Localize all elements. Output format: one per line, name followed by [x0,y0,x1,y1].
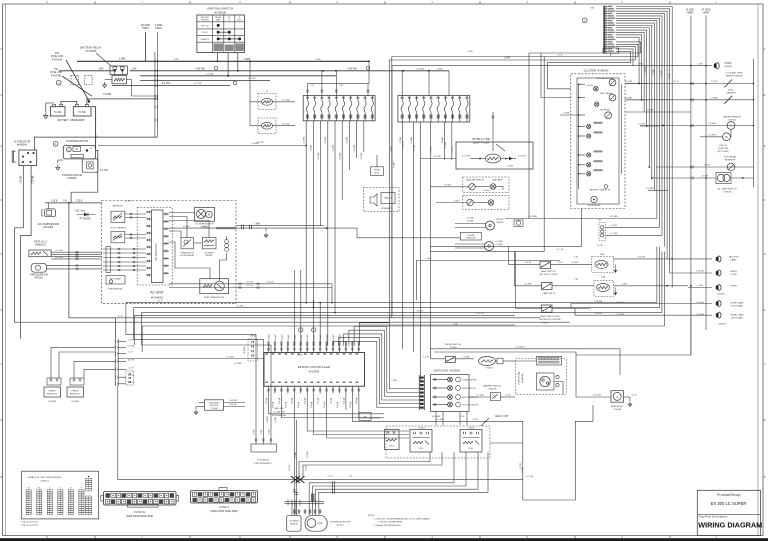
washer switch [469,384,515,400]
svg-text:0.5 RW: 0.5 RW [625,81,633,83]
governor connector strip [284,494,324,516]
svg-text:TX.38A: TX.38A [78,111,86,114]
svg-text:OIL TEMP SWITCH: OIL TEMP SWITCH [717,189,737,191]
svg-text:1 R: 1 R [310,85,314,87]
svg-text:1.2 RBL: 1.2 RBL [462,357,470,359]
svg-text:C: C [764,363,766,366]
wire right loop down [576,286,691,355]
svg-text:0.5 B: 0.5 B [460,416,465,418]
bus wire 0.5YBL [112,82,230,86]
fuse box 1 [303,96,375,121]
mode damper motor [106,276,125,291]
svg-text:0.5WR: 0.5WR [275,416,277,423]
svg-text:PRESSURE SW: PRESSURE SW [30,274,48,277]
svg-text:0.2 LGW: 0.2 LGW [462,156,470,158]
connector V.LINK-A [191,488,258,513]
svg-text:0.5LgW: 0.5LgW [333,334,335,341]
svg-text:0.5W: 0.5W [261,430,263,435]
wrap wire band [14,247,664,352]
svg-text:INTERFACING: INTERFACING [272,414,286,417]
svg-text:0.5 LG: 0.5 LG [247,285,254,287]
wire 65.7 row to horn [392,65,712,316]
wires at switchbox bottom [432,412,467,426]
side harness verticals right [686,9,711,356]
hour meter [588,196,601,207]
svg-text:0.5 GW: 0.5 GW [433,156,441,158]
svg-text:#YC0788: #YC0788 [51,74,62,77]
svg-text:1.25 GB: 1.25 GB [616,302,624,304]
radio [363,188,399,212]
svg-text:PUMP SW: PUMP SW [718,148,728,150]
wire row y251 [430,250,544,252]
svg-text:1.2 WBL: 1.2 WBL [710,97,719,99]
A/C internal wires [169,217,227,282]
svg-text:0.5 RW: 0.5 RW [467,221,474,223]
gas damp relay [194,400,245,415]
relay PW1 [410,427,432,452]
svg-text:1.25WL: 1.25WL [311,144,313,152]
svg-text:0.5 WR: 0.5 WR [646,188,654,190]
svg-text:FRONT: FRONT [496,219,504,221]
switch box [431,370,479,411]
svg-text:1.25 WB: 1.25 WB [416,68,425,70]
svg-text:A/C AMPLIFIER: A/C AMPLIFIER [155,243,158,260]
work lamp left [571,300,744,308]
svg-text:BOX: BOX [375,173,380,175]
svg-text:0.5 YB: 0.5 YB [557,249,564,251]
svg-text:FUEL GAUGE: FUEL GAUGE [600,92,613,95]
horn low [670,270,738,276]
big routing loop bottom right [523,405,593,500]
svg-text:PRESS: PRESS [71,391,79,393]
mirror heat unit [576,349,637,411]
svg-text:0.5 GW: 0.5 GW [55,257,63,259]
svg-text:EX 200 LC SUPER: EX 200 LC SUPER [711,501,747,506]
governor junction X [289,455,308,515]
svg-text:MIRROR H/T: MIRROR H/T [611,406,624,408]
bottom bus wire y480 [118,479,523,481]
svg-text:1.25 RW: 1.25 RW [616,314,624,316]
svg-text:HARN: HARN [142,27,149,30]
svg-text:# B8046: # B8046 [68,177,78,180]
serial check connector [192,336,264,366]
pressure sensor 2 [67,361,116,402]
fuse link 45A [51,52,89,101]
svg-text:#Y09048: #Y09048 [723,192,732,194]
svg-text:0.5 YBL: 0.5 YBL [194,83,202,85]
svg-text:TO DISPLAY: TO DISPLAY [257,459,270,462]
A/C control unit [137,208,172,286]
relay left box [385,430,400,450]
svg-text:1.25WL: 1.25WL [340,152,342,160]
svg-text:5 WR: 5 WR [467,51,473,53]
svg-text:0.5LgB: 0.5LgB [318,397,320,404]
svg-text:2. FITTED ON MACHINE: 2. FITTED ON MACHINE [378,521,403,524]
svg-text:MTR: MTR [318,523,323,525]
svg-text:2.5 R: 2.5 R [328,476,333,478]
governor pin labels [293,510,321,514]
diode assembly [75,211,95,221]
svg-text:1.2 WY: 1.2 WY [711,81,718,83]
svg-text:0.5WR: 0.5WR [411,136,413,143]
EPROG top pin labels [269,334,342,341]
svg-text:0.5LgW: 0.5LgW [281,334,283,341]
ignition switch table [197,7,245,53]
cluster right stub wires [625,81,707,190]
svg-text:0.5 YBL: 0.5 YBL [100,169,109,172]
svg-text:#Y04022: #Y04022 [151,296,163,300]
svg-text:#D60457: #D60457 [717,294,726,296]
svg-text:FRESH/RECIRC: FRESH/RECIRC [108,289,123,291]
svg-text:#Y0068: #Y0068 [211,408,219,410]
bus wire 2WB [77,56,370,62]
bus wire row4 [140,80,270,82]
svg-text:TERM.N: TERM.N [201,20,209,22]
A/C unit enclosure [102,201,237,304]
svg-text:2 W: 2 W [574,279,578,281]
svg-text:#YS901B: #YS901B [214,10,226,14]
svg-text:HORN: HORN [730,271,737,273]
svg-text:1 GB: 1 GB [453,324,458,326]
wire 1GW long [416,258,560,300]
svg-text:0.5 WR: 0.5 WR [227,357,234,359]
svg-text:RELAY UNIT: RELAY UNIT [495,415,509,418]
svg-text:#Y09011: #Y09011 [728,120,737,122]
svg-text:GLOW: GLOW [587,85,593,87]
svg-text:TXB 2/1.3-CKTCL: TXB 2/1.3-CKTCL [21,525,39,527]
svg-text:1 GW: 1 GW [697,285,702,287]
svg-text:0.5LgB: 0.5LgB [350,401,352,408]
svg-text:#P60499: #P60499 [724,66,733,68]
washer tank [505,216,657,226]
oil pump switch label [717,145,729,153]
svg-text:V.LINK-W: V.LINK-W [134,511,146,514]
svg-text:SPEAKER: SPEAKER [381,207,391,210]
wire to HR relay [420,156,456,159]
svg-text:0.5GW: 0.5GW [289,465,291,471]
svg-text:BLOWER: BLOWER [204,252,214,254]
highlighted 1BW wire [169,223,460,238]
harness junction strip [582,6,618,56]
svg-text:0.5WR: 0.5WR [414,144,416,151]
svg-text:GOVERNOR MOTOR: GOVERNOR MOTOR [330,522,351,524]
svg-text:D: D [1,253,3,256]
svg-text:(LOW): (LOW) [730,274,737,276]
svg-text:CONN-02: CONN-02 [40,481,50,483]
svg-text:1.50 W+R: 1.50 W+R [515,347,525,349]
svg-text:0.5 GW: 0.5 GW [282,99,289,101]
svg-text:1.25WL: 1.25WL [304,136,306,144]
svg-text:EPROG CONTROLLER: EPROG CONTROLLER [298,365,331,369]
EPROG top pin risers [294,270,321,346]
svg-text:A SIDE: A SIDE [155,24,163,27]
small dashed connector [126,371,134,385]
lamp switch feed drops [508,247,515,309]
svg-text:COOLANT TEMP: COOLANT TEMP [725,72,743,75]
svg-text:LAMP SWITCH: LAMP SWITCH [541,270,556,273]
wire relay to loop [490,443,523,469]
governor motor [305,515,351,531]
washer relay oval [479,357,517,370]
svg-text:MODULE: MODULE [210,405,219,407]
power transistor [200,279,229,299]
svg-text:0.5LgB: 0.5LgB [356,397,358,404]
blower relay [202,238,216,258]
svg-text:1 BW: 1 BW [637,63,642,65]
svg-text:IGNITION SWITCH: IGNITION SWITCH [207,7,233,11]
resistor pack [225,236,229,251]
svg-text:0.5LgW: 0.5LgW [288,334,290,341]
svg-text:WIPER: WIPER [497,222,504,224]
svg-text:#Y5604 B: #Y5604 B [488,388,497,390]
svg-text:0.5 W: 0.5 W [297,355,302,357]
svg-text:1 GW: 1 GW [621,283,626,285]
svg-text:0.5LgW: 0.5LgW [327,334,329,341]
pressure sensor 1 [44,347,116,403]
EPROG controller [264,342,365,394]
svg-text:0.5W: 0.5W [253,430,255,435]
svg-text:0.5LgB: 0.5LgB [343,397,345,404]
oil temp switch [652,173,754,194]
svg-text:TEL METER: TEL METER [600,110,611,112]
svg-text:SENSOR-2: SENSOR-2 [70,394,81,396]
fuse box 1 top feeds [306,61,369,95]
svg-text:1.2 WBL: 1.2 WBL [708,123,717,125]
svg-text:1.25 WR: 1.25 WR [21,175,23,184]
svg-text:0.5 BR: 0.5 BR [237,305,244,307]
right return wire [753,59,755,188]
svg-text:0.5LgB: 0.5LgB [337,401,339,408]
svg-text:1.25 GB: 1.25 GB [594,301,602,303]
scanner black bar bottom edge [0,538,768,541]
svg-text:WORK LAMP: WORK LAMP [730,301,744,304]
svg-text:Product/Group: Product/Group [717,493,740,497]
HR relay time delay [456,112,533,169]
svg-text:1.25WB: 1.25WB [452,146,454,154]
svg-text:WIPER SWITCH: WIPER SWITCH [445,344,462,346]
svg-text:SENDER: SENDER [726,93,736,95]
lamp switch 2 [514,283,594,296]
bus circled marks [214,66,370,84]
fan bundle descenders [639,62,672,288]
svg-text:2 B: 2 B [63,201,67,203]
svg-text:1.25WB: 1.25WB [403,141,405,149]
svg-text:WASHER SWITCH: WASHER SWITCH [483,384,501,387]
svg-text:0.5 WB: 0.5 WB [103,93,111,96]
spare lamp box [454,196,509,210]
svg-text:OIL RELAY: OIL RELAY [289,520,299,523]
ground bus 1.25B [45,201,102,204]
svg-text:0.85 WB: 0.85 WB [195,67,205,70]
svg-text:D: D [764,253,766,256]
svg-text:0.35 Y: 0.35 Y [454,200,460,202]
svg-text:0.5WR: 0.5WR [669,72,671,79]
svg-text:0.5 RB: 0.5 RB [467,218,474,220]
svg-text:1.25 LG: 1.25 LG [476,313,484,315]
svg-text:Org./Part Description: Org./Part Description [699,515,728,519]
wire compressor ground to sensor column [69,203,116,339]
svg-text:1.25 RW: 1.25 RW [594,313,602,315]
svg-text:0.85 WR: 0.85 WR [347,67,357,70]
svg-text:AIR INLET: AIR INLET [113,205,124,208]
harness connector column [146,32,158,137]
svg-text:0.5 R: 0.5 R [558,54,563,56]
bus wire 1BK row [59,67,449,71]
svg-text:TAIL RUN: TAIL RUN [729,256,739,259]
svg-text:HORN: HORN [730,285,737,287]
svg-text:HARN: HARN [687,12,694,15]
svg-text:0.5WR: 0.5WR [295,451,297,458]
A/C compressor [37,203,59,229]
svg-text:1.25 B: 1.25 B [51,201,58,203]
A/C harness connector rows [103,247,146,273]
svg-text:0.5LgB: 0.5LgB [266,397,268,404]
svg-text:1.25WB: 1.25WB [645,66,647,74]
flasher wires [516,361,563,394]
EPROG bottom wires [266,394,523,456]
svg-text:0.5LgW: 0.5LgW [269,334,271,341]
svg-text:1.25 WB: 1.25 WB [33,175,35,184]
turn flasher box [515,356,566,394]
svg-text:SENSOR #B0098: SENSOR #B0098 [726,76,743,78]
svg-text:(TBL ROD) #Y5043: (TBL ROD) #Y5043 [539,274,558,276]
svg-text:0.5LgB: 0.5LgB [298,401,300,408]
svg-text:0.5LgB: 0.5LgB [330,397,332,404]
svg-text:TURN/SIGNAL: TURN/SIGNAL [518,370,521,384]
svg-text:0.5 LR: 0.5 LR [247,282,254,284]
battery relay [80,46,137,97]
svg-text:SERIAL: SERIAL [243,345,246,353]
alternator output wires [14,166,34,339]
svg-text:1.25 RW: 1.25 RW [696,314,704,316]
relay output wires to AC unit [51,250,101,260]
svg-text:0.5LgW: 0.5LgW [275,334,277,341]
pressure switch wires [47,264,102,270]
svg-text:1.25WL: 1.25WL [354,144,356,152]
svg-text:HARN: HARN [703,12,710,15]
svg-text:0.5 G: 0.5 G [673,81,678,83]
svg-text:1.25WB: 1.25WB [431,146,433,154]
svg-text:2 WB: 2 WB [119,56,126,60]
svg-text:BATTERY #B32540B/B: BATTERY #B32540B/B [58,119,85,122]
svg-text:#Y54049: #Y54049 [71,401,80,403]
gauge spare [600,110,612,119]
svg-text:(A): (A) [204,225,207,228]
bus wire row3 [140,75,336,77]
horn relay [574,275,692,296]
svg-text:1.2 WB: 1.2 WB [563,113,570,115]
svg-text:SLIP METAL: SLIP METAL [724,156,737,159]
svg-text:0.5WR: 0.5WR [653,68,655,75]
svg-text:WIRING DIAGRAM: WIRING DIAGRAM [698,521,762,530]
svg-text:2 W: 2 W [574,257,578,259]
svg-text:0.5 YR: 0.5 YR [597,245,604,247]
svg-text:0.5 YR: 0.5 YR [128,359,135,361]
svg-text:AC UNIT: AC UNIT [150,291,164,295]
svg-text:LAMP: LAMP [731,259,737,262]
svg-text:0.45 WR: 0.45 WR [229,400,237,402]
svg-text:0.25 WG: 0.25 WG [593,395,602,397]
svg-text:CAN DHL: CAN DHL [274,407,285,410]
svg-text:0.5LgB: 0.5LgB [324,401,326,408]
svg-text:SENSOR: SENSOR [290,524,299,526]
svg-text:WATER SENSOR: WATER SENSOR [723,116,741,119]
svg-text:SWITCH BOX #Y60220H: SWITCH BOX #Y60220H [434,370,461,372]
vacuum sensor [640,116,754,130]
cluster left stub wires [529,53,571,251]
svg-text:0.5 GR: 0.5 GR [417,310,424,312]
radio fuse box [371,155,384,175]
svg-text:0.5 WY: 0.5 WY [611,225,618,227]
A/C lower output wires [169,282,333,304]
svg-text:4.5 WBL: 4.5 WBL [610,216,619,218]
wire starter to fuse bundle [98,143,307,146]
svg-text:0.5 WL: 0.5 WL [445,184,453,186]
title block [697,490,762,535]
svg-text:0.5 WR: 0.5 WR [235,363,242,365]
svg-text:1. CIRCUIT MODE BREAKER, AC &: 1. CIRCUIT MODE BREAKER, AC & DTC APPLIC… [374,517,430,520]
svg-text:#YC0434: #YC0434 [52,58,63,61]
svg-text:RETURN (OPT WK.RM): RETURN (OPT WK.RM) [539,319,561,321]
svg-text:#Y5604: #Y5604 [418,427,426,429]
svg-text:#M0301S: #M0301S [35,243,46,246]
wires ignition switch to bus [217,53,239,77]
svg-text:1.0 WR: 1.0 WR [257,142,264,144]
svg-text:0.5LgB: 0.5LgB [292,397,294,404]
slow blow switch [656,156,754,171]
svg-text:0.5 RBL: 0.5 RBL [625,98,634,100]
wiper switch [423,344,474,363]
svg-text:CAB LAMP SWITCH: CAB LAMP SWITCH [466,179,485,182]
fuel sender [625,90,754,104]
battery 2 [58,105,91,122]
svg-text:0.5 WY: 0.5 WY [702,176,709,178]
cab lamp relay 1 [572,253,674,273]
svg-text:0.5 WY: 0.5 WY [572,262,579,264]
display unit connector [251,425,277,465]
fuse link 75A [50,68,92,96]
svg-text:#Y5052: #Y5052 [483,190,491,192]
svg-text:0.5WR: 0.5WR [522,466,524,473]
svg-text:#YC0808: #YC0808 [86,50,97,53]
wire micro labels [94,51,702,478]
svg-text:5 WB: 5 WB [315,59,321,61]
gauge water temp [597,77,616,86]
svg-text:0.5LgB: 0.5LgB [311,401,313,408]
svg-text:1.25WB: 1.25WB [307,451,309,459]
cluster bottom drop [580,209,582,247]
svg-text:PF DIODE: PF DIODE [80,219,91,221]
horn high [688,284,737,295]
svg-text:COOL THERMO: COOL THERMO [110,227,126,229]
connector details table [22,471,99,519]
svg-text:PRESS: PRESS [48,391,56,393]
svg-text:[VIEW FROM WIRE SIDE]: [VIEW FROM WIRE SIDE] [210,511,238,513]
fuse box 2 top feeds [402,71,449,96]
svg-text:0.5 WG: 0.5 WG [611,233,618,235]
harness fan wrap wires to left [244,42,640,322]
svg-text:ENG WATER TEMP: ENG WATER TEMP [597,77,615,80]
svg-text:1.25WL: 1.25WL [318,152,320,160]
svg-text:SENSOR-1: SENSOR-1 [47,394,58,396]
svg-text:1 BK: 1 BK [174,59,179,61]
svg-text:1.25WB: 1.25WB [391,146,393,154]
svg-text:1.25 B: 1.25 B [76,201,83,203]
svg-text:0.5 B: 0.5 B [632,395,637,397]
gauge fuel [600,92,616,101]
svg-text:TRANSISTOR: TRANSISTOR [180,251,194,254]
svg-text:1 WW: 1 WW [507,166,513,168]
